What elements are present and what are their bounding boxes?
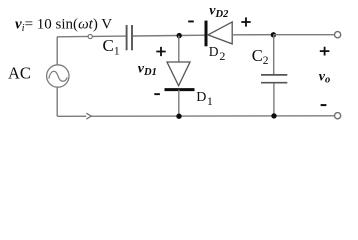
diode D2 cathode bar bbox=[205, 21, 208, 47]
label - (vD2 minus) bbox=[188, 21, 194, 23]
svg-text:AC: AC bbox=[8, 63, 31, 82]
terminal: output + open circle bbox=[335, 32, 341, 38]
wire: left vertical upper bbox=[56, 37, 58, 65]
marker: chevron on bottom wire bbox=[86, 113, 91, 119]
label + (vD2 plus) bbox=[241, 17, 250, 26]
label + (vo plus) bbox=[320, 47, 330, 56]
node A junction dot bbox=[177, 33, 182, 38]
wire: left vertical lower bbox=[56, 87, 58, 116]
diode D2 triangle bbox=[208, 22, 232, 44]
wire: node A down to D1 bbox=[178, 36, 180, 62]
label - (vo minus) bbox=[321, 104, 327, 106]
diode D1 triangle bbox=[167, 62, 190, 86]
wire: D1 to bottom wire bbox=[178, 90, 180, 117]
junction dot bottom right bbox=[271, 113, 276, 118]
label + (vD1 plus) bbox=[156, 47, 165, 56]
wire: node B to output + terminal bbox=[273, 34, 334, 36]
terminal: output - open circle bbox=[335, 113, 341, 119]
junction dot bottom left bbox=[176, 114, 181, 119]
wire: C1 to node A bbox=[133, 34, 205, 37]
capacitor C2 plates bbox=[261, 74, 287, 76]
node: open circle on top wire bbox=[88, 34, 92, 38]
svg-text:vi= 10 sin(ωt) V: vi= 10 sin(ωt) V bbox=[15, 16, 112, 34]
capacitor C1 plates bbox=[126, 25, 128, 50]
wire: node B down to C2 bbox=[273, 35, 275, 75]
node B junction dot bbox=[271, 32, 276, 37]
source AC circle bbox=[47, 65, 69, 87]
wire: D2 to node B bbox=[232, 34, 273, 36]
wire: bottom horizontal bbox=[57, 115, 337, 118]
wire: top-left horizontal from source to C1 bbox=[57, 35, 126, 38]
wire: C2 to bottom wire bbox=[273, 83, 275, 116]
diode D1 cathode bar bbox=[165, 88, 195, 91]
label - (vD1 minus) bbox=[154, 93, 160, 95]
source sine wave bbox=[49, 71, 68, 81]
